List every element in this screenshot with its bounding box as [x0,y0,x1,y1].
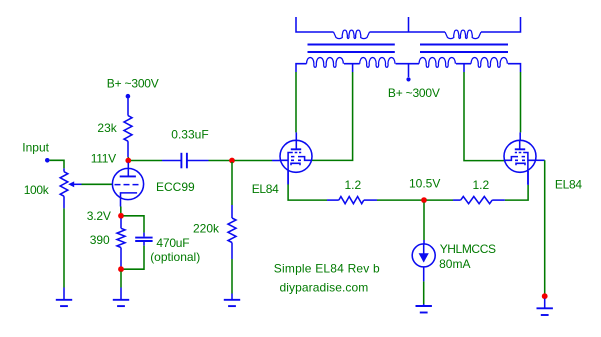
svg-text:1.2: 1.2 [345,178,362,192]
wire cathode to 3.2V node [120,207,122,214]
svg-text:390: 390 [90,233,110,247]
transformer T2 core [420,45,508,53]
potentiometer 100k [63,168,65,171]
wire wiper to ECC99 grid [82,183,113,185]
svg-text:EL84: EL84 [252,182,279,196]
transformer primary line and taps [296,64,521,72]
transformer T2 secondary coil [445,30,481,39]
T2 primary coil a [419,57,455,67]
svg-text:23k: 23k [97,121,117,135]
ground CCS [423,304,425,306]
wire T2 UL tap to right EL84 g2 [464,72,505,161]
wire cap to grid node [209,160,231,162]
wire T2 end to right EL84 plate [520,72,522,132]
node cathode bottom [118,266,124,272]
wire to right EL84 cathode [505,185,528,200]
triode ECC99 [112,168,143,199]
transformer T1 core [308,45,395,53]
wire left EL84 cathode down [287,171,289,184]
ground cathode network [120,288,122,300]
current source YHLMCCS [423,240,425,244]
resistor 1.2 right [453,199,461,201]
transformer secondary rail with terminals [296,17,521,32]
svg-text:EL84: EL84 [555,177,582,191]
svg-text:220k: 220k [193,222,220,236]
svg-text:3.2V: 3.2V [87,209,111,223]
svg-text:Simple EL84 Rev b: Simple EL84 Rev b [274,261,380,275]
wire node to EL84 g1 [235,160,273,162]
wire 3.2V to 470uF [124,216,145,233]
ground input pot [63,288,65,300]
node EL84 grid [229,158,235,164]
node 111V [125,158,131,164]
T1 primary coil a [307,57,344,67]
svg-text:111V: 111V [91,151,116,165]
wire 111V node to cap [131,160,162,162]
capacitor 470uF [143,233,145,237]
svg-text:(optional): (optional) [150,250,200,264]
T1 primary coil b [360,57,395,67]
wire node to right 1.2 [427,199,454,201]
wire right EL84 g1 [536,159,545,161]
pentode EL84 right [504,140,536,172]
svg-text:80mA: 80mA [439,257,470,271]
ground 220k [231,294,233,300]
resistor 220k [231,205,233,218]
svg-text:100k: 100k [24,183,50,197]
svg-text:ECC99: ECC99 [156,180,195,194]
input terminal [45,158,50,163]
wire 220k to ground [231,259,233,294]
B+ terminal mid [406,77,410,81]
capacitor 0.33uF [162,160,181,162]
svg-text:0.33uF: 0.33uF [171,128,208,142]
svg-text:10.5V: 10.5V [409,176,440,190]
ground right [544,299,546,309]
wire pot to ground [63,208,65,287]
node 3.2V [118,213,124,219]
svg-text:diyparadise.com: diyparadise.com [280,280,369,294]
svg-text:B+ ~300V: B+ ~300V [107,76,159,90]
wire 470uF to lower node [124,246,145,270]
svg-text:YHLMCCS: YHLMCCS [440,242,496,256]
node right g1 ground [542,293,548,299]
pentode EL84 left [280,140,312,172]
svg-text:B+ ~300V: B+ ~300V [388,86,440,100]
resistor 1.2 left [327,199,339,201]
wire node down to 220k [231,162,233,205]
wire T1 end to left EL84 plate [295,72,297,132]
resistor 23k [127,98,129,115]
T2 primary coil b [471,57,507,67]
wire to 10.5V node [377,199,422,201]
wire T1 UL tap to left EL84 g2 [312,72,353,160]
wire CCS to ground [423,281,425,304]
resistor 390 [120,218,122,228]
wire 10.5V node to CCS [423,203,425,241]
svg-text:Input: Input [22,141,49,155]
svg-text:470uF: 470uF [156,236,189,250]
node 10.5V [421,197,427,203]
svg-text:1.2: 1.2 [473,178,490,192]
wire node to ground [120,272,122,288]
wire input to pot top [50,160,64,168]
transformer T1 secondary coil [334,30,370,39]
B+ terminal left [126,94,131,99]
